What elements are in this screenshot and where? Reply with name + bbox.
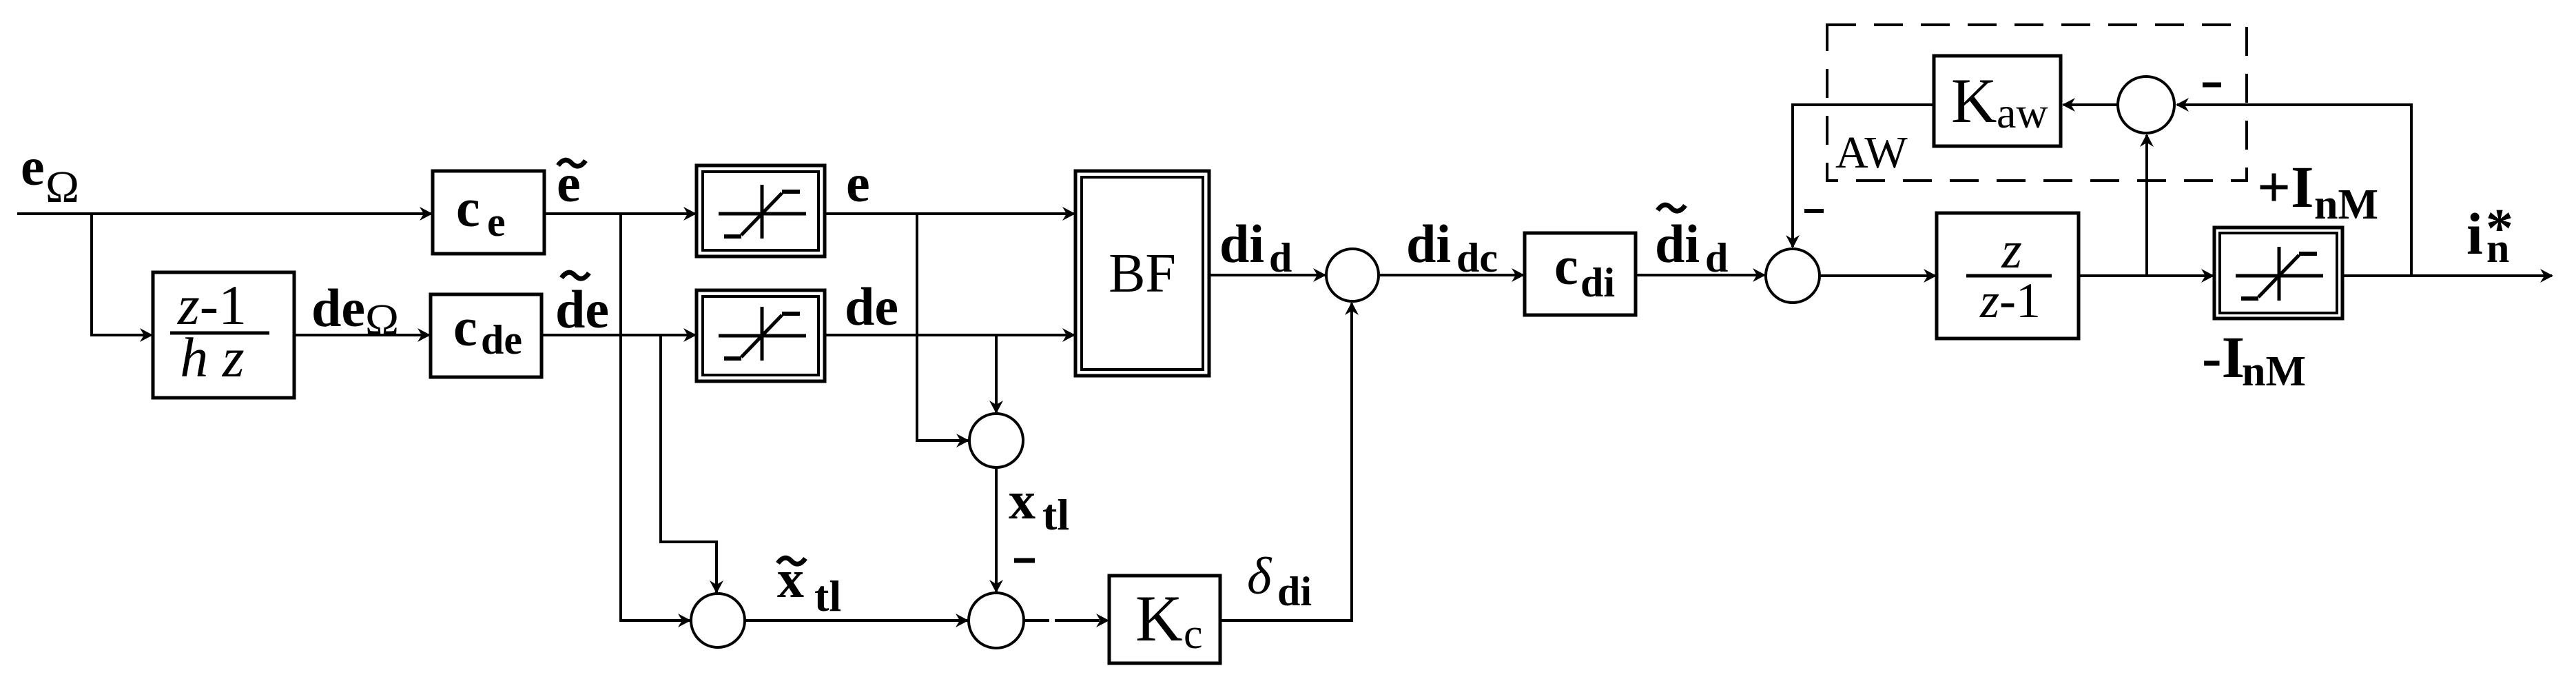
block c_de bbox=[431, 294, 542, 377]
wire: Sx1 down to Sx2 top bbox=[989, 467, 1003, 593]
wire: e_Omega branch down to z-1/hz bbox=[92, 214, 153, 342]
block c_e bbox=[433, 171, 544, 254]
svg-text:c: c bbox=[456, 178, 480, 238]
wire: tilde-e branch down to summing Sb1 bbox=[621, 214, 691, 627]
label x_tl bbox=[1009, 470, 1069, 539]
wire: branch up to S3 bottom bbox=[2140, 134, 2154, 276]
svg-text:tl: tl bbox=[1042, 490, 1069, 539]
svg-text:h z: h z bbox=[180, 326, 244, 389]
wire: input e_Omega to c_e bbox=[17, 207, 433, 221]
wire: tilde-de branch down to Sb1 top bbox=[661, 335, 723, 594]
wire: de branch down to Sx1 top bbox=[989, 335, 1003, 414]
svg-text:c: c bbox=[1184, 611, 1203, 658]
wire: S1 output di_dc to c_di bbox=[1379, 268, 1525, 282]
summing junction S1 (di_d + delta_di) bbox=[1326, 249, 1379, 301]
svg-text:aw: aw bbox=[1997, 88, 2048, 137]
svg-text:i: i bbox=[2466, 201, 2483, 267]
label e_Omega bbox=[21, 137, 79, 212]
svg-text:BF: BF bbox=[1109, 243, 1176, 304]
label minus at S3 bbox=[2203, 83, 2221, 88]
wire: c_de output to SAT2 bbox=[542, 328, 697, 342]
svg-text:z: z bbox=[2001, 221, 2022, 279]
label e after SAT1 bbox=[846, 153, 870, 213]
svg-text:de: de bbox=[311, 278, 365, 338]
label tilde-e bbox=[557, 153, 586, 213]
block z/(z-1) (integrator) bbox=[1937, 213, 2079, 338]
wire: Sb1 output tilde-x_tl to Sx2 bbox=[745, 614, 969, 627]
svg-text:nM: nM bbox=[2242, 348, 2306, 395]
svg-text:x: x bbox=[1009, 470, 1035, 530]
svg-text:x: x bbox=[777, 549, 804, 609]
block BF: fuzzy block (double border) bbox=[1075, 171, 1209, 376]
svg-text:d: d bbox=[1705, 235, 1728, 281]
wire: dashed Sx2 to K_c bbox=[1024, 614, 1109, 627]
svg-text:c: c bbox=[453, 297, 477, 357]
wire: z/(z-1) output to SAT3 bbox=[2079, 269, 2214, 283]
svg-text:Ω: Ω bbox=[45, 162, 79, 212]
svg-text:di: di bbox=[1580, 260, 1615, 305]
label tilde-x_tl bbox=[777, 549, 841, 620]
block SAT3: output current limiter (double border) bbox=[2214, 228, 2342, 319]
label di_d bbox=[1219, 214, 1292, 281]
svg-text:-I: -I bbox=[2202, 324, 2245, 390]
label -I_nM bbox=[2202, 324, 2306, 395]
svg-text:e: e bbox=[557, 153, 581, 213]
summing junction S3 (anti-windup difference) bbox=[2118, 77, 2174, 133]
label de_Omega bbox=[311, 278, 399, 345]
wire: SAT2 output de to BF lower input bbox=[825, 328, 1075, 342]
dashed box AW (anti-windup) bbox=[1827, 25, 2247, 181]
wire: c_di output to S2 bbox=[1636, 268, 1766, 282]
svg-text:Ω: Ω bbox=[365, 295, 399, 345]
block K_c bbox=[1109, 576, 1220, 663]
label delta_di bbox=[1247, 547, 1312, 614]
wire: output feedback up and left into S3 bbox=[2176, 98, 2411, 276]
svg-text:di: di bbox=[1406, 214, 1451, 274]
label minus at S2 bbox=[1804, 209, 1824, 213]
wire: z-1/hz output to c_de bbox=[294, 328, 431, 342]
summing junction Sx2 (x_tl - tilde-x_tl) bbox=[969, 593, 1024, 648]
summing junction Sx1 (x_tl) bbox=[969, 414, 1023, 467]
wire: S2 output to z/(z-1) bbox=[1820, 269, 1937, 283]
svg-text:de: de bbox=[845, 276, 898, 336]
label i*_n output bbox=[2466, 199, 2513, 271]
svg-text:di: di bbox=[1655, 214, 1700, 274]
label AW bbox=[1835, 128, 1908, 178]
summing junction Sb1 (tilde-x_tl) bbox=[691, 594, 745, 647]
wire: c_e output to SAT1 bbox=[544, 207, 697, 221]
block c_di bbox=[1525, 233, 1636, 315]
block SAT1: saturation of e (double border) bbox=[697, 165, 825, 256]
label tilde-de bbox=[555, 272, 609, 339]
svg-text:K: K bbox=[1951, 65, 1997, 136]
svg-text:nM: nM bbox=[2314, 181, 2378, 228]
label minus at Sx2 bbox=[1014, 558, 1035, 563]
svg-text:n: n bbox=[2486, 225, 2509, 271]
svg-text:di: di bbox=[1219, 214, 1264, 274]
svg-text:K: K bbox=[1135, 582, 1183, 655]
svg-text:tl: tl bbox=[814, 572, 841, 620]
svg-text:δ: δ bbox=[1247, 547, 1272, 605]
summing junction S2 (before integrator) bbox=[1766, 249, 1820, 303]
wire: S3 to K_aw bbox=[2062, 98, 2118, 112]
block SAT2: saturation of de (double border) bbox=[697, 290, 825, 381]
block K_aw: anti-windup gain bbox=[1934, 56, 2061, 146]
wire: SAT1 output e to BF upper input bbox=[825, 207, 1075, 221]
wire: e branch down to Sx1 left bbox=[917, 214, 969, 447]
svg-text:e: e bbox=[21, 137, 45, 196]
block z-1/hz (derivative) bbox=[153, 272, 294, 398]
wire: K_aw output down to S2 top bbox=[1786, 105, 1934, 248]
svg-text:dc: dc bbox=[1456, 235, 1498, 281]
wire: K_c output delta_di up to S1 bottom bbox=[1220, 302, 1359, 620]
svg-text:AW: AW bbox=[1835, 128, 1908, 178]
label di_dc bbox=[1406, 214, 1498, 281]
svg-text:de: de bbox=[555, 279, 609, 339]
svg-text:e: e bbox=[846, 153, 870, 213]
wire: BF output di_d to S1 bbox=[1209, 268, 1326, 282]
svg-text:di: di bbox=[1277, 569, 1312, 614]
svg-text:e: e bbox=[487, 199, 506, 245]
wire: SAT3 output to i*_n bbox=[2342, 269, 2553, 283]
label tilde-di_d bbox=[1655, 205, 1728, 281]
label de after SAT2 bbox=[845, 276, 898, 336]
svg-text:de: de bbox=[481, 317, 522, 363]
svg-text:d: d bbox=[1269, 235, 1292, 281]
svg-text:z-1: z-1 bbox=[1979, 273, 2041, 328]
svg-text:+I: +I bbox=[2257, 154, 2314, 220]
svg-text:c: c bbox=[1554, 236, 1578, 296]
label +I_nM bbox=[2257, 154, 2378, 228]
